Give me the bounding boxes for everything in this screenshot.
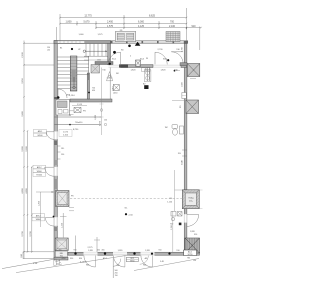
svg-text:W900: W900 [130,260,134,262]
entrance door line [112,259,114,278]
washer fixture rect with circles [144,70,151,82]
arc B2 [113,256,125,268]
dim text block left-lower of stair [59,130,72,137]
bottom labels below band [61,257,147,260]
toilet fixtures [172,125,184,136]
locker counter lines [55,116,102,118]
svg-text:850: 850 [79,258,82,260]
elevator box R3 [182,190,199,209]
svg-text:AW-1: AW-1 [38,130,43,133]
corridor door arc 2 [155,52,167,64]
svg-text:1,060: 1,060 [78,34,84,36]
corridor wall segment A [121,65,154,68]
stair arrow lower [73,86,75,88]
dim tick slashes top [59,17,202,29]
svg-text:780: 780 [187,258,190,260]
stair bottom door arc [58,89,67,98]
corridor stub wall to R1 [180,63,187,66]
svg-text:11人: 11人 [189,199,193,202]
right wall [184,44,187,254]
stair corner dark band [95,62,113,65]
dashed ceiling line [70,198,183,200]
svg-text:1FL: 1FL [178,153,181,155]
stair center column hatched [70,56,77,91]
arc B1 [84,256,96,268]
svg-text:50: 50 [69,115,71,117]
pit box with X [74,108,81,113]
svg-text:1,100: 1,100 [61,222,63,228]
label cluster 2 [33,165,46,177]
svg-text:1,150: 1,150 [171,225,173,230]
svg-text:3,400: 3,400 [22,110,24,116]
svg-text:3,700: 3,700 [30,230,32,236]
diagonal boundary 1 [2,259,56,269]
svg-text:150: 150 [115,275,118,277]
door arc 1 [46,132,54,140]
svg-text:910: 910 [192,25,197,28]
right run treads [77,57,89,75]
svg-text:900: 900 [143,264,146,266]
svg-text:1,575: 1,575 [97,34,103,36]
right wall ticks [182,150,187,156]
shutter box on corridor wall [136,60,141,66]
svg-text:910: 910 [74,250,77,252]
svg-text:2,730: 2,730 [182,47,184,52]
svg-text:1,510: 1,510 [69,95,75,97]
left wall tick marks [58,146,61,159]
svg-text:455: 455 [102,250,105,252]
left wall [54,41,57,259]
diagonal boundary 3 [134,259,199,271]
room vertical dim line [101,68,103,136]
svg-text:950: 950 [70,258,73,260]
dim vertical right lower [172,211,174,252]
bottom-right door arc [140,256,149,265]
svg-text:1,150: 1,150 [167,201,172,203]
svg-text:450: 450 [92,90,95,92]
vent box B [166,32,180,42]
black equipment square [144,85,148,89]
door gap B1 [84,252,98,255]
washroom fixtures [171,212,182,221]
dim line V1 [23,41,25,259]
door gap 1 [54,131,58,139]
svg-text:3,640: 3,640 [182,160,184,165]
door gap 2 [54,167,58,176]
door gap 3 [54,217,58,226]
corridor wall segment B [181,65,187,68]
svg-text:W: W [146,58,148,60]
corridor wall dark block [119,64,128,67]
stair inner wall vertical [87,73,89,99]
top dim texts [66,14,197,35]
svg-text:2,275: 2,275 [87,247,93,249]
small box fixture with X [113,85,119,91]
MB box below L2 [55,251,67,257]
stair hall right wall [108,44,111,65]
svg-text:2,730: 2,730 [100,120,102,126]
shaft box R1 [187,64,200,77]
svg-text:W900: W900 [37,171,42,173]
dim arrow to L1 [36,191,54,193]
svg-text:AW-2: AW-2 [37,166,42,169]
door arc 3 [45,218,53,226]
small hanging rects under corridor wall [142,68,146,72]
ext lines right of R3 [199,189,202,191]
svg-text:455: 455 [59,250,62,252]
svg-text:1FL: 1FL [61,148,64,150]
section triangle marker [135,42,141,46]
svg-text:1,820: 1,820 [160,69,166,71]
door gap B3 [141,252,155,255]
bottom dim texts above band [59,250,180,253]
svg-text:700: 700 [170,20,175,23]
svg-text:750x450: 750x450 [75,122,82,124]
dim vertical above L2 [62,213,64,238]
svg-text:3,150: 3,150 [22,77,24,83]
svg-text:W600: W600 [38,135,43,137]
svg-text:1200: 1200 [97,59,101,61]
door gap B2 [113,252,127,255]
shaft box R4 [185,238,200,253]
svg-text:x950: x950 [61,258,65,260]
stair window lighter part [58,41,85,43]
right door arc [187,215,199,227]
stair hall bottom wall [70,99,112,102]
left run treads [58,57,71,89]
svg-text:1,820: 1,820 [190,231,195,233]
svg-text:900: 900 [86,264,89,266]
svg-text:x50: x50 [47,50,50,52]
survey dot [125,213,127,215]
svg-text:900: 900 [117,265,120,267]
svg-text:1,820: 1,820 [88,250,93,252]
stair corner hatched boxlet [91,65,100,74]
svg-text:6,000: 6,000 [138,20,145,23]
svg-text:2,100: 2,100 [63,135,69,137]
stair arrow top [83,50,85,52]
svg-text:5.48: 5.48 [160,261,164,263]
svg-text:3,600: 3,600 [26,145,28,151]
diagonal boundary 2 [16,255,130,273]
svg-text:750kg: 750kg [188,197,193,199]
svg-text:2,450: 2,450 [107,20,114,23]
aux verticals near bottom [75,236,77,253]
dim line T2 [60,23,187,25]
svg-text:450: 450 [97,250,100,252]
svg-text:B,790: B,790 [73,129,79,131]
svg-text:4,800: 4,800 [26,187,28,193]
dim line T1 [60,17,187,19]
corridor door arc 3 [171,52,183,64]
corridor door sill lines [109,65,182,67]
svg-text:12,775: 12,775 [84,14,92,17]
svg-text:W780: W780 [188,254,193,256]
svg-text:1,820: 1,820 [145,250,150,252]
svg-text:1,575: 1,575 [63,132,69,134]
svg-text:2: 2 [130,56,131,58]
svg-text:4,800: 4,800 [22,187,24,193]
svg-text:8,625: 8,625 [149,14,156,17]
extension verticals [59,14,61,41]
partition stub below corridor wall [146,68,148,82]
bottom wall [68,252,200,255]
svg-text:B1: B1 [60,48,62,50]
dim under stair hall [72,105,87,107]
svg-text:4,125: 4,125 [138,25,145,28]
vent box A [115,32,136,42]
svg-text:1,575: 1,575 [107,25,114,28]
door arc 2 [45,167,54,176]
svg-text:x950: x950 [66,95,70,97]
svg-text:AW-3: AW-3 [36,214,41,217]
entrance label box [126,257,138,261]
svg-text:SD-2: SD-2 [112,59,116,61]
left wall dark segments [54,141,57,146]
label cluster 1 [34,129,47,137]
corridor door arc 1 [108,52,120,64]
top run treads [86,44,106,57]
wall window small box [182,93,186,99]
svg-text:3,700: 3,700 [22,230,24,236]
svg-text:1,820: 1,820 [130,69,136,71]
left dim ticks [23,42,32,252]
svg-text:1,515: 1,515 [77,104,83,106]
svg-text:1,820: 1,820 [118,250,123,252]
shaft box R2 [186,100,199,114]
svg-text:910: 910 [176,250,179,252]
bottom wall dots [74,252,76,254]
svg-text:3,600: 3,600 [22,145,24,151]
bottom wall left jog [54,257,68,260]
svg-text:SD-4: SD-4 [163,59,167,61]
svg-text:4.5M: 4.5M [33,263,38,265]
entrance step hatch [54,259,62,266]
svg-text:1.5FL: 1.5FL [111,86,113,91]
extension horizontals [24,42,55,44]
svg-text:2,100: 2,100 [169,25,176,28]
sink triangle fixture [107,72,113,81]
svg-text:W860: W860 [36,219,41,221]
svg-text:SD-3: SD-3 [140,59,144,61]
svg-text:1,200: 1,200 [39,200,41,206]
svg-text:150: 150 [104,120,107,122]
svg-text:2,730: 2,730 [157,49,163,51]
svg-text:1,820: 1,820 [182,82,184,87]
svg-text:1,800: 1,800 [66,20,73,23]
right label box [184,250,197,256]
svg-text:2,100: 2,100 [22,51,24,57]
top run stringers [84,55,108,57]
label cluster 3 [32,214,45,222]
svg-text:150: 150 [47,47,50,49]
corridor small texts [102,49,180,72]
svg-text:150: 150 [193,260,196,262]
top window band [111,41,188,44]
right wall door gap [184,214,187,222]
svg-text:910: 910 [194,234,197,236]
svg-text:150: 150 [61,154,64,156]
dim line T3 [96,27,201,29]
svg-text:5,670: 5,670 [84,20,91,23]
svg-text:H2000: H2000 [36,175,42,177]
left rotated dim texts [21,51,32,257]
right run edge [88,56,90,80]
top wall stair part [54,41,111,44]
svg-text:910: 910 [159,250,162,252]
arc B3 [141,256,153,268]
stair hall partition line [109,68,111,100]
dim line V2 [27,131,29,252]
svg-text:6.23m2: 6.23m2 [80,261,86,263]
